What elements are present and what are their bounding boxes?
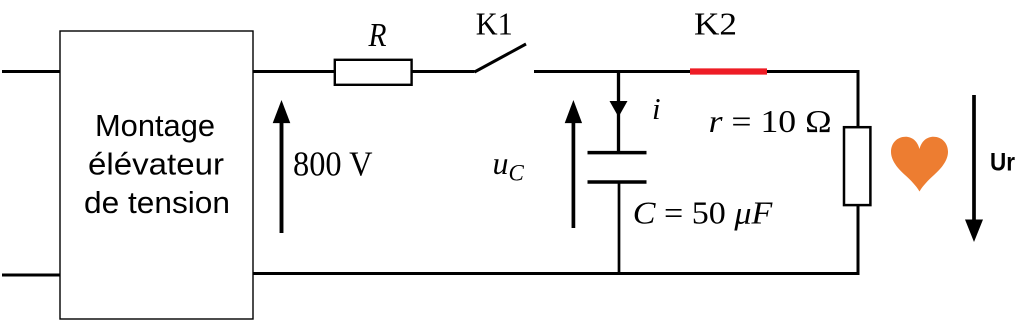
svg-text:r = 10 Ω: r = 10 Ω — [709, 103, 832, 139]
current arrow i head — [610, 101, 628, 117]
wire capacitor branch upper — [617, 70, 620, 152]
wire right branch upper — [857, 70, 860, 128]
svg-text:800 V: 800 V — [293, 145, 373, 184]
wire right branch lower — [857, 205, 860, 275]
heart (patient) — [891, 137, 948, 192]
svg-text:élévateur: élévateur — [88, 147, 224, 182]
wire top-left lead — [2, 70, 61, 73]
wire switch K1 to right corner — [534, 70, 860, 73]
svg-text:Ur: Ur — [990, 149, 1015, 177]
wire bottom rail — [253, 272, 860, 275]
wire box to resistor R — [253, 70, 335, 73]
svg-text:Montage: Montage — [95, 108, 215, 143]
wire resistor to switch K1 — [412, 70, 475, 73]
wire bottom-left lead — [2, 274, 61, 277]
svg-text:K1: K1 — [476, 6, 513, 42]
voltage arrow uC — [565, 100, 582, 228]
switch K1 blade — [475, 44, 527, 72]
switch K2 closed (red segment) — [690, 68, 767, 74]
block: Montage elevateur de tension — [60, 31, 253, 319]
svg-text:R: R — [368, 17, 387, 54]
wire capacitor branch lower — [618, 183, 621, 275]
capacitor C top plate — [588, 151, 647, 155]
voltage arrow 800 V — [273, 100, 291, 233]
voltage arrow Ur — [965, 95, 983, 242]
svg-text:K2: K2 — [694, 6, 737, 42]
resistor r — [844, 127, 870, 205]
resistor R — [335, 60, 412, 85]
capacitor C bottom plate — [588, 180, 647, 184]
svg-text:C = 50 μF: C = 50 μF — [633, 195, 773, 231]
svg-text:i: i — [652, 91, 661, 126]
svg-text:de tension: de tension — [84, 185, 230, 220]
